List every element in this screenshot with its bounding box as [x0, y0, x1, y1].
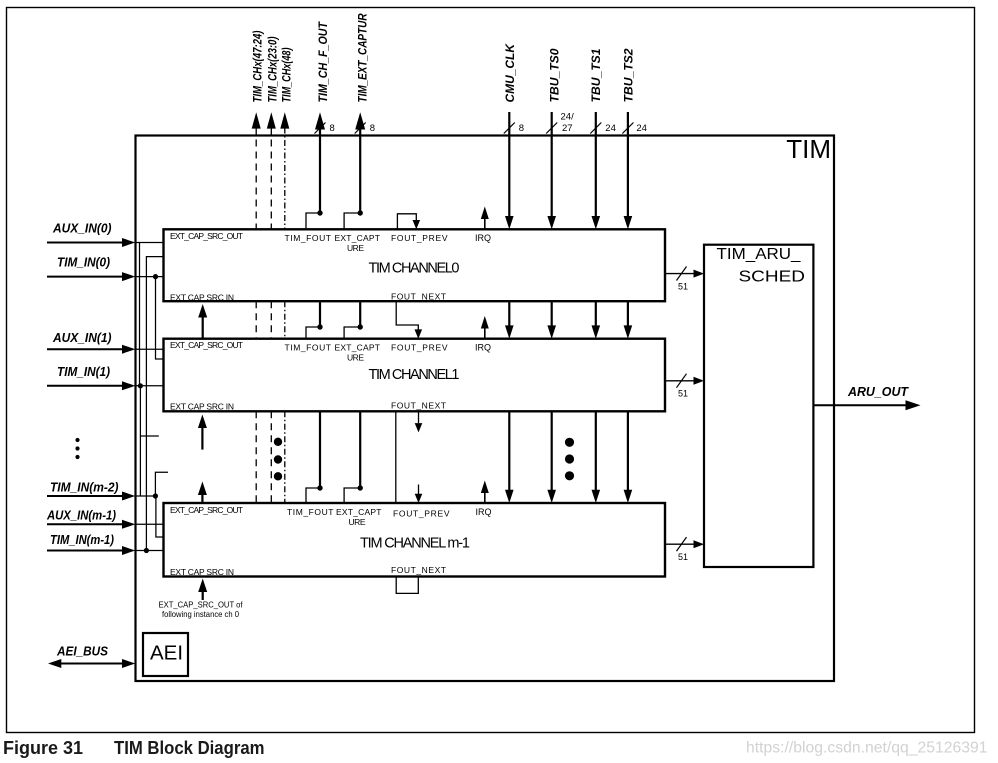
svg-text:TBU_TS1: TBU_TS1	[589, 48, 603, 102]
svg-text:URE: URE	[347, 243, 364, 253]
svg-text:TIM_FOUT: TIM_FOUT	[287, 507, 334, 517]
bus slash 24 on TBU_TS1	[590, 123, 601, 134]
wire FOUT_PREV ch m-1 arrow	[418, 485, 420, 495]
svg-text:TIM_EXT_CAPTUR: TIM_EXT_CAPTUR	[356, 13, 370, 102]
svg-text:TIM CHANNEL m-1: TIM CHANNEL m-1	[360, 536, 470, 552]
svg-text:TIM_CHx(47:24): TIM_CHx(47:24)	[251, 31, 265, 103]
wire IRQ ch0 up arrow	[484, 218, 486, 229]
svg-text:IRQ: IRQ	[475, 233, 491, 243]
svg-text:TBU_TS0: TBU_TS0	[548, 48, 562, 102]
block TIM CHANNEL1	[164, 339, 666, 412]
svg-text:EXT CAP SRC IN: EXT CAP SRC IN	[170, 292, 234, 302]
svg-text:FOUT_PREV: FOUT_PREV	[393, 509, 450, 519]
wire TIM_CHx(23:0) dashed vertical	[270, 128, 272, 504]
svg-text:EXT_CAPT: EXT_CAPT	[335, 342, 381, 352]
svg-text:EXT_CAP_SRC_OUT: EXT_CAP_SRC_OUT	[170, 231, 243, 241]
bus slash 8 on CMU_CLK	[504, 123, 515, 134]
wire AUX_IN(1) inner	[136, 348, 164, 350]
svg-text:SCHED: SCHED	[739, 269, 806, 286]
wire AUX_IN(0) inner	[136, 242, 164, 244]
svg-text:TIM: TIM	[786, 134, 831, 164]
wire TIM_CHx(47:24) dashed vertical	[255, 128, 257, 504]
svg-text:FOUT_PREV: FOUT_PREV	[391, 342, 448, 352]
svg-text:TIM_IN(m-2): TIM_IN(m-2)	[50, 481, 119, 495]
node ellipsis mid-right	[565, 438, 574, 447]
wire EXT_CAP_SRC_OUT of following instance into ch m-1	[202, 591, 204, 600]
node TIM_FOUT ch m-1 junction + step	[317, 485, 322, 490]
node TIM_IN(m-2) junction	[153, 493, 158, 498]
wire AUX_IN(1) arrow	[47, 348, 124, 350]
svg-text:CMU_CLK: CMU_CLK	[503, 43, 517, 103]
bus slash 24 on TBU_TS2	[622, 123, 633, 134]
svg-text:TIM CHANNEL0: TIM CHANNEL0	[369, 261, 460, 277]
svg-text:TIM CHANNEL1: TIM CHANNEL1	[369, 367, 460, 383]
wire FOUT_NEXT ch1 down line	[395, 411, 397, 503]
wire TIM_IN(m-2) branch down into ch m-1	[156, 496, 164, 537]
wire CMU_CLK vertical down	[508, 112, 510, 491]
svg-text:AEI_BUS: AEI_BUS	[56, 645, 109, 659]
wire IRQ ch1 up arrow	[484, 328, 486, 339]
wire AUX_IN(m-1) arrow	[47, 523, 124, 525]
svg-text:ARU_OUT: ARU_OUT	[847, 385, 909, 399]
node TIM_IN(1) junction	[138, 383, 143, 388]
node TIM_IN(m-1) junction on L2	[144, 548, 149, 553]
svg-text:TIM_IN(1): TIM_IN(1)	[57, 365, 110, 379]
svg-text:FOUT_PREV: FOUT_PREV	[391, 233, 448, 243]
svg-text:EXT_CAP_SRC_OUT of: EXT_CAP_SRC_OUT of	[159, 599, 244, 609]
wire TBU_TS2 vertical down	[627, 112, 629, 491]
svg-text:EXT CAP SRC IN: EXT CAP SRC IN	[170, 401, 234, 411]
wire TIM_CH_F_OUT vertical	[319, 128, 321, 488]
wire FOUT_PREV ch0 stub loop	[397, 214, 416, 230]
svg-text:TIM_IN(0): TIM_IN(0)	[57, 256, 110, 270]
svg-text:https://blog.csdn.net/qq_25126: https://blog.csdn.net/qq_25126391	[746, 740, 988, 757]
node EXT_CAPTURE ch0 junction + step	[358, 210, 363, 215]
caption Figure 31 TIM Block Diagram	[3, 738, 265, 758]
block AEI	[143, 633, 188, 676]
svg-text:TIM Block Diagram: TIM Block Diagram	[114, 738, 265, 758]
wire EXT_CAP_SRC to EXT_CAP_SRC_IN ch1 arrow	[201, 428, 203, 450]
wire TIM_EXT_CAPTUR vertical	[359, 128, 361, 488]
wire bracket stub at y436	[140, 435, 158, 437]
wire TIM_IN(m-1) inner	[136, 550, 164, 552]
wire FOUT_NEXT ch0 to FOUT_PREV ch1	[396, 301, 418, 329]
wire TIM_CHx(48) dash-dot vertical	[284, 128, 286, 504]
wire ARU bus ch1 (51)	[665, 380, 695, 382]
svg-text:TIM_FOUT: TIM_FOUT	[285, 233, 332, 243]
svg-text:51: 51	[678, 282, 688, 292]
svg-text:Figure 31: Figure 31	[3, 738, 83, 758]
node EXT_CAPTURE ch1 junction + step	[358, 324, 363, 329]
svg-text:following instance ch 0: following instance ch 0	[162, 609, 239, 619]
svg-text:FOUT_NEXT: FOUT_NEXT	[391, 401, 446, 411]
wire ARU bus ch0 (51)	[665, 273, 695, 275]
svg-text:IRQ: IRQ	[476, 507, 492, 517]
svg-text:TIM_CHx(23:0): TIM_CHx(23:0)	[266, 37, 280, 103]
node EXT_CAPTURE ch m-1 junction + step	[358, 485, 363, 490]
wire TIM_IN(1) inner	[136, 385, 164, 387]
svg-text:24: 24	[636, 123, 647, 134]
svg-text:24: 24	[605, 123, 616, 134]
svg-text:IRQ: IRQ	[475, 342, 491, 352]
wire L1 vertical from AUX_IN(0) down	[139, 243, 141, 386]
svg-text:8: 8	[370, 123, 375, 134]
wire TIM_IN(0) branch down into ch1	[156, 277, 164, 359]
block TIM_ARU_SCHED	[704, 245, 813, 567]
svg-text:TIM_CHx(48): TIM_CHx(48)	[280, 48, 294, 103]
wire FOUT_NEXT ch m-1 stub	[396, 577, 418, 594]
svg-text:FOUT_NEXT: FOUT_NEXT	[391, 292, 446, 302]
wire IRQ ch m-1 up arrow	[484, 492, 486, 503]
block TIM (outer boundary)	[136, 136, 835, 682]
svg-text:TIM_FOUT: TIM_FOUT	[285, 342, 332, 352]
node TIM_IN(0) junction	[153, 274, 158, 279]
bus slash 24/27 on TBU_TS0	[546, 123, 557, 134]
wire ARU_OUT arrow	[813, 404, 906, 406]
svg-text:AUX_IN(0): AUX_IN(0)	[52, 222, 111, 236]
wire EXT_CAP_SRC_OUT ch1 to EXT_CAP_SRC_IN ch0 arrow	[202, 317, 204, 339]
svg-text:URE: URE	[349, 517, 366, 527]
svg-text:EXT_CAP_SRC_OUT: EXT_CAP_SRC_OUT	[170, 505, 243, 515]
svg-text:AEI: AEI	[150, 642, 183, 665]
svg-text:AUX_IN(m-1): AUX_IN(m-1)	[46, 509, 116, 523]
wire EXT_CAP_SRC ch0 left exit + vertical L2	[146, 257, 163, 551]
wire TIM_IN(m-2) inner	[136, 495, 156, 497]
node TIM_FOUT ch1 junction + step	[317, 324, 322, 329]
svg-text:EXT_CAP_SRC_OUT: EXT_CAP_SRC_OUT	[170, 340, 243, 350]
svg-text:51: 51	[678, 389, 688, 399]
svg-text:EXT_CAPT: EXT_CAPT	[336, 507, 382, 517]
svg-text:51: 51	[678, 552, 688, 562]
svg-text:24/: 24/	[561, 112, 575, 123]
svg-text:EXT_CAPT: EXT_CAPT	[335, 233, 381, 243]
svg-text:URE: URE	[347, 352, 364, 362]
node TIM_FOUT ch0 junction + step	[317, 210, 322, 215]
svg-text:EXT CAP SRC IN: EXT CAP SRC IN	[170, 567, 234, 577]
wire TIM_IN(0) inner	[136, 276, 164, 278]
wire TBU_TS0 vertical down	[551, 112, 553, 491]
bus slash 8 on TIM_CH_F_OUT	[315, 123, 326, 134]
wire TIM_IN(m-2) arrow	[47, 495, 124, 497]
wire AUX_IN(0) arrow	[47, 242, 124, 244]
wire AEI_BUS double arrow	[60, 663, 124, 665]
wire FOUT chain short arrow below ch1	[418, 411, 420, 423]
wire TBU_TS1 vertical down	[595, 112, 597, 491]
node ellipsis left	[75, 438, 79, 442]
svg-text:TIM_ARU_: TIM_ARU_	[717, 246, 802, 263]
wire ARU bus ch m-1 (51)	[665, 543, 695, 545]
block TIM CHANNEL m-1	[164, 503, 666, 577]
svg-text:AUX_IN(1): AUX_IN(1)	[52, 331, 111, 345]
block TIM CHANNEL0	[164, 229, 666, 302]
wire TIM_IN(0) arrow	[47, 276, 124, 278]
svg-text:8: 8	[519, 123, 524, 134]
svg-text:TBU_TS2: TBU_TS2	[622, 48, 636, 102]
wire TIM_IN(1) arrow	[47, 385, 124, 387]
wire TIM_IN(m-1) arrow	[47, 550, 124, 552]
svg-text:TIM_CH_F_OUT: TIM_CH_F_OUT	[316, 21, 330, 103]
svg-text:27: 27	[562, 123, 573, 134]
node ellipsis mid-left	[274, 438, 282, 446]
wire AUX_IN(m-1) inner	[136, 523, 164, 525]
bus slash 8 on TIM_EXT_CAPTUR	[355, 123, 366, 134]
wire EXT_CAP_SRC_OUT ch m-1 up arrow	[201, 494, 203, 503]
svg-text:FOUT_NEXT: FOUT_NEXT	[391, 565, 446, 575]
svg-text:8: 8	[330, 123, 335, 134]
wire TIM_IN(m-2) branch up bracket	[155, 472, 168, 496]
svg-text:TIM_IN(m-1): TIM_IN(m-1)	[50, 533, 114, 547]
